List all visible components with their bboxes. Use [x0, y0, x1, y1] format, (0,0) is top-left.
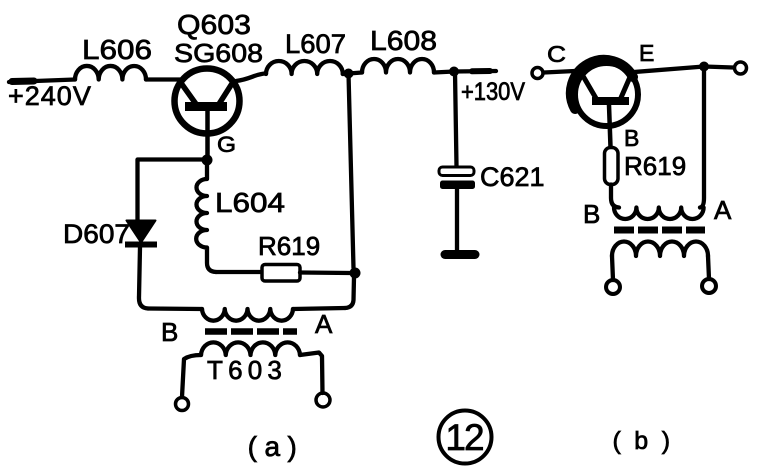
transistor Q603 circle	[175, 69, 240, 134]
wire secondary right lead	[300, 353, 323, 394]
transistor Q603 collector lead inside	[181, 83, 196, 104]
terminal circle secondary right	[316, 393, 330, 407]
wire L606 to Q603 collector	[146, 77, 180, 81]
wire +240V feed (top-left horizontal)	[9, 80, 75, 83]
transistor (b) base bar	[592, 97, 629, 105]
svg-text:L606: L606	[82, 34, 152, 65]
svg-text:B: B	[624, 125, 639, 151]
wire L607 to junction	[343, 73, 362, 75]
transistor (b) emitter lead inside	[620, 77, 630, 100]
transformer (b) secondary winding	[612, 242, 708, 257]
transistor (b) collector lead inside	[583, 76, 597, 100]
svg-text:L607: L607	[285, 29, 346, 59]
wire +130V stub to right	[454, 69, 496, 74]
terminal circle secondary left	[176, 398, 189, 411]
svg-text:C621: C621	[480, 162, 545, 192]
transistor (b) base lead down	[609, 105, 611, 147]
diode D607 (cathode down)	[127, 221, 156, 243]
svg-text:(b): (b)	[612, 427, 683, 455]
wire D607 to bottom rail	[139, 247, 148, 309]
terminal circle (b) secondary left	[606, 280, 620, 294]
svg-text:B: B	[161, 317, 178, 347]
wire bottom rail left segment	[148, 306, 202, 311]
resistor R619 (b) body	[605, 148, 619, 185]
svg-text:Q603: Q603	[177, 9, 251, 40]
wire E node down to winding right	[700, 67, 704, 208]
junction dot at +130V node	[449, 67, 459, 77]
transformer (b) primary winding	[614, 208, 704, 220]
svg-text:+130V: +130V	[461, 78, 525, 106]
wire C621 branch vertical	[455, 72, 457, 166]
svg-text:B: B	[583, 199, 600, 229]
resistor R619 (a) body	[262, 265, 300, 282]
wire (b) secondary left lead	[612, 256, 613, 280]
inductor L606	[75, 66, 146, 80]
svg-text:D607: D607	[63, 219, 130, 249]
junction dot R619/A node	[350, 268, 361, 279]
transistor Q603 base bar	[185, 102, 227, 111]
node G junction dot	[202, 155, 213, 166]
svg-text:G: G	[217, 132, 236, 157]
wire bottom rail right segment	[293, 308, 345, 309]
wire thick ink blob on +130V stub	[472, 68, 490, 74]
svg-text:C: C	[547, 41, 566, 67]
transistor Q603 base lead down to node G	[205, 110, 210, 158]
svg-text:R619: R619	[258, 231, 320, 261]
wire secondary left lead	[182, 355, 201, 397]
junction dot after L607	[344, 69, 354, 79]
capacitor C621 bottom plate (solid)	[440, 181, 475, 190]
junction dot E node	[699, 62, 709, 72]
terminal circle E output	[735, 62, 747, 74]
svg-text:A: A	[714, 195, 732, 225]
svg-text:A: A	[315, 309, 333, 339]
svg-text:SG608: SG608	[174, 38, 263, 68]
wire junction down to bottom rail corner	[345, 277, 354, 308]
svg-text:E: E	[639, 40, 654, 66]
svg-text:L608: L608	[370, 25, 437, 56]
transformer T603 secondary winding	[201, 342, 300, 355]
terminal circle (b) secondary right	[702, 279, 716, 293]
wire (b) secondary right lead	[708, 256, 709, 279]
inductor L607	[266, 61, 343, 74]
transistor (b) thick ink arc top-left	[571, 60, 633, 109]
wire R619 (b) to winding	[611, 185, 619, 208]
capacitor C621 top plate (outline)	[439, 167, 474, 176]
wire node G to D607 branch	[138, 160, 203, 221]
wire C terminal to transistor	[544, 71, 585, 73]
transformer T603 primary winding	[202, 309, 293, 321]
wire R619 to junction	[300, 270, 350, 275]
terminal circle C input	[532, 68, 543, 79]
svg-text:(a): (a)	[248, 431, 305, 462]
wire E to junction	[634, 67, 704, 73]
svg-text:+240V: +240V	[8, 81, 92, 111]
ground bar below C621	[445, 250, 475, 259]
wire L604 to R619	[216, 270, 262, 274]
wire vertical from L607 junction down to R619 junction	[349, 74, 354, 269]
figure number circle 12	[439, 411, 492, 464]
svg-text:T603: T603	[207, 355, 287, 385]
transformer (b) core (dashed bar)	[614, 227, 705, 234]
wire Q603 emitter to L607	[236, 74, 266, 82]
wire L608 to +130V junction	[434, 72, 454, 73]
svg-text:R619: R619	[624, 151, 686, 181]
diode D607 cathode bar	[125, 242, 157, 248]
svg-text:L604: L604	[215, 187, 285, 218]
wire junction to right terminal	[704, 67, 733, 68]
inductor L608	[362, 59, 434, 73]
transistor (b) circle	[575, 63, 638, 126]
inductor L604 (vertical)	[196, 161, 216, 272]
transformer T603 core (dashed bar)	[205, 328, 297, 335]
wire thick ink blob on feed wire	[12, 78, 34, 86]
transistor Q603 emitter lead inside	[219, 82, 233, 104]
svg-text:12: 12	[445, 417, 483, 458]
wire C621 to bottom bar	[455, 189, 459, 252]
